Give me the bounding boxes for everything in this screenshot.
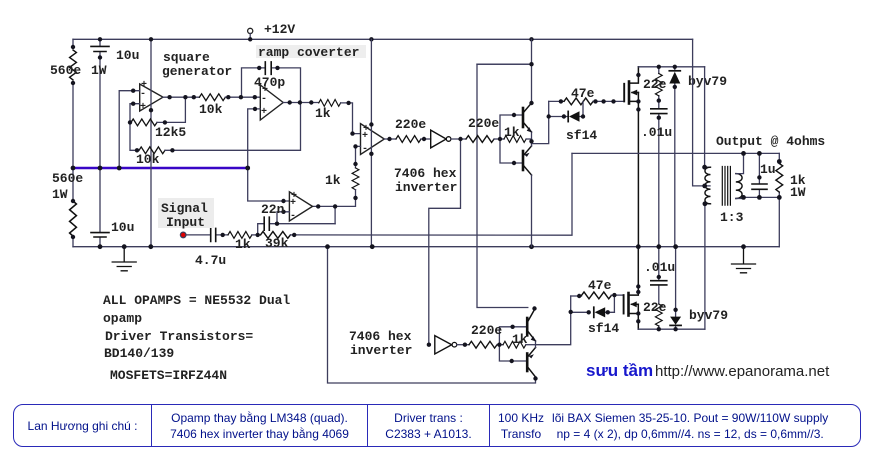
transistor Q1 collector — [523, 103, 532, 113]
transistor Q2 collector — [523, 165, 532, 175]
resistor 1k vertical (audio to comparator) — [352, 168, 359, 190]
wire output right side down to ground rail — [778, 197, 780, 246]
junction dots 22n / U4 inputs — [275, 222, 279, 226]
svg-text:+: + — [262, 85, 268, 96]
diode sf14 lower — [571, 311, 615, 313]
wire 39k to feedback line — [290, 234, 294, 236]
wire comparator output — [384, 138, 396, 140]
wire ramp feedback — [131, 103, 301, 151]
junction dots upper chain — [387, 137, 391, 141]
MOSFET M1 upper: gate bar — [623, 84, 625, 102]
MOSFET M2 lower: gate bar — [623, 295, 625, 313]
svg-text:560e: 560e — [50, 63, 81, 78]
MOSFET M2 substrate arrow — [632, 303, 639, 305]
transistor Q1 NPN upper: base bar — [522, 108, 525, 127]
svg-text:Input: Input — [166, 215, 205, 230]
label Signal Input — [158, 198, 214, 228]
wire U3 V+ V- riser — [370, 39, 372, 246]
junction dots 47e/sf14 lower — [577, 294, 581, 298]
wire drain rail upper — [638, 66, 704, 68]
svg-text:Signal: Signal — [161, 201, 208, 216]
wire U1 V+ / V- riser — [150, 39, 152, 246]
wire 1k to 39k — [252, 234, 261, 236]
resistor 1k upper driver — [504, 136, 526, 143]
svg-text:BD140/139: BD140/139 — [104, 346, 174, 361]
wire U2 output — [283, 102, 319, 104]
diode byv79 lower — [675, 247, 677, 330]
MOSFET M1 substrate arrow — [632, 92, 638, 94]
junction dots 10k divider — [135, 148, 139, 152]
transistor Q4 PNP lower: base bar — [526, 354, 529, 372]
MOSFET M1 channel bar — [628, 82, 631, 104]
wire 22n riser to U4 inverting input — [277, 212, 289, 224]
junction dots lower chain — [427, 343, 431, 347]
MOSFET M2 channel bar — [627, 293, 630, 316]
transformer T1 primary winding — [705, 167, 711, 204]
resistor 1k lower driver — [503, 341, 526, 348]
svg-text:220e: 220e — [471, 323, 502, 338]
junction dots signal path — [221, 233, 225, 237]
junction dots U3 riser — [369, 122, 373, 126]
svg-text:sf14: sf14 — [566, 128, 597, 143]
svg-text:560e: 560e — [52, 171, 83, 186]
junction dot 1u top — [757, 175, 761, 179]
wire to base junction — [494, 138, 504, 140]
arrowhead Q3 emitter — [531, 336, 536, 341]
svg-text:ALL OPAMPS = NE5532 Dual: ALL OPAMPS = NE5532 Dual — [103, 293, 290, 308]
wire terminal stem — [249, 34, 251, 40]
svg-text:.01u: .01u — [641, 125, 672, 140]
svg-text:+: + — [141, 80, 147, 91]
svg-text:MOSFETS=IRFZ44N: MOSFETS=IRFZ44N — [110, 368, 227, 383]
svg-text:sf14: sf14 — [588, 321, 619, 336]
wire output bottom rail — [744, 196, 780, 198]
resistor 1k signal — [228, 232, 252, 239]
svg-text:22e: 22e — [643, 300, 667, 315]
junction dot ground stem right — [741, 244, 746, 249]
wire output line (secondary top rail) — [572, 152, 779, 154]
wire lower output to 47e/sf14 — [536, 296, 571, 345]
junction dot U2 + input — [253, 107, 257, 111]
svg-text:1k: 1k — [325, 173, 341, 188]
svg-text:39k: 39k — [265, 236, 289, 251]
diode sf14 upper — [549, 101, 583, 116]
svg-text:1W: 1W — [790, 185, 806, 200]
credit line: epanorama url — [655, 363, 829, 380]
resistor 220e (second, upper chain) — [466, 136, 494, 143]
svg-text:47e: 47e — [588, 278, 612, 293]
wire inverter1 output — [451, 138, 466, 140]
transistor Q3 emitter — [527, 331, 535, 342]
junction dots blue rail — [71, 166, 76, 171]
wire +12V down to center tap — [693, 39, 710, 186]
op-amp U1 square generator — [140, 84, 163, 111]
junction dot U3 + input — [350, 131, 354, 135]
wire emitters node upper — [531, 132, 533, 146]
junction dots 12k5 — [128, 120, 132, 124]
svg-text:22n: 22n — [261, 202, 285, 217]
wire L1 +12V branch to lower NPN — [477, 64, 532, 307]
svg-text:opamp: opamp — [103, 311, 142, 326]
MOSFET M2 source stub — [629, 304, 639, 329]
svg-text:1k: 1k — [504, 125, 520, 140]
wire U1 non-inverting input — [130, 104, 140, 151]
wire bottom rail (primary bottom net) — [638, 328, 705, 330]
junction dots drain rail upper — [657, 65, 661, 69]
wire emitters node lower — [535, 341, 537, 379]
svg-text:220e: 220e — [468, 116, 499, 131]
svg-text:10k: 10k — [136, 152, 160, 167]
wire 12k5 to output L — [157, 97, 185, 122]
note table — [13, 404, 861, 447]
transistor Q4 emitter — [527, 348, 535, 358]
MOSFET M1 drain stub — [629, 67, 638, 83]
wire 47e left lead — [549, 100, 564, 102]
junction dots U2 output row — [288, 100, 292, 104]
transistor Q3 collector — [527, 310, 534, 323]
svg-text:byv79: byv79 — [689, 308, 728, 323]
svg-text:inverter: inverter — [350, 343, 412, 358]
junction dots snubber/diode lower — [657, 275, 661, 279]
wire U1 output — [163, 96, 199, 98]
wire upper output to 47e/sf14 — [532, 101, 549, 143]
inverter 7406 lower — [435, 336, 452, 354]
resistor 560e top-left — [70, 50, 77, 80]
wire U1 inverting input — [119, 91, 140, 168]
svg-text:47e: 47e — [571, 86, 595, 101]
svg-text:1:3: 1:3 — [720, 210, 744, 225]
snubber lower: .01u + 22e — [658, 247, 660, 330]
transistor Q2 emitter — [523, 146, 532, 156]
wire 220e to inverter1 — [421, 138, 431, 140]
wire primary bottom riser — [704, 204, 706, 329]
resistor 560e lower-left — [70, 201, 77, 236]
wire secondary bottom tap — [736, 197, 744, 198]
blue mid-supply rail — [73, 167, 248, 170]
ground symbol right — [732, 247, 756, 273]
junction dot byv79 upper anode — [673, 85, 677, 89]
svg-text:generator: generator — [162, 64, 232, 79]
svg-text:12k5: 12k5 — [155, 125, 186, 140]
wire secondary top tap — [736, 153, 744, 173]
transformer T1 core — [722, 167, 730, 206]
junction dots ground rail mid — [325, 244, 330, 249]
capacitor 10u top-left — [99, 39, 101, 168]
junction dot ground rail left caps — [98, 244, 103, 249]
svg-text:4.7u: 4.7u — [195, 253, 226, 268]
capacitor 1u — [758, 153, 760, 197]
transistor Q2 PNP upper: base bar — [522, 151, 525, 170]
wire 47e to gate junction — [611, 295, 623, 312]
label ramp coverter — [256, 45, 366, 58]
MOSFET M1 source stub — [629, 93, 638, 247]
ground rail (main bottom) — [73, 246, 779, 248]
svg-text:1k: 1k — [315, 106, 331, 121]
wire inverter2 output — [457, 344, 469, 346]
wire 1k to emitter node lower — [526, 344, 536, 346]
+12V top rail — [73, 38, 693, 40]
wire 47e to gate — [593, 100, 624, 102]
wire 1k to emitter node — [526, 138, 531, 140]
svg-text:470p: 470p — [254, 75, 285, 90]
junction dots 470p — [257, 66, 261, 70]
junction dots M2 — [636, 284, 640, 288]
wire signal input — [186, 234, 228, 236]
resistor 220e lower — [469, 341, 497, 348]
svg-text:byv79: byv79 — [688, 74, 727, 89]
svg-text:7406 hex: 7406 hex — [349, 329, 412, 344]
arrowhead Q2 emitter — [524, 153, 529, 157]
junction dots primary taps — [702, 165, 707, 170]
MOSFET M2 drain stub — [629, 247, 639, 295]
resistor 12k5 — [131, 119, 157, 126]
op-amp U3 comparator — [361, 124, 385, 155]
wire base risers lower pair — [499, 327, 527, 361]
wire to lower base junction — [497, 344, 503, 346]
wire U4 + fed from blue rail (drawn in A) junction — [283, 200, 285, 202]
svg-text:1W: 1W — [52, 187, 68, 202]
junction dots bottom rail — [657, 327, 661, 331]
arrowhead Q1 emitter — [527, 127, 532, 132]
wire primary bottom tap — [705, 203, 710, 205]
inverter 7406 upper — [431, 130, 447, 148]
wire U2 non-inverting input from blue rail — [248, 109, 290, 201]
resistor 47e upper — [564, 98, 593, 105]
wire 1k to comparator + — [341, 103, 361, 134]
junction dots top rail — [98, 37, 102, 41]
svg-text:ramp coverter: ramp coverter — [258, 45, 359, 60]
transistor Q4 collector — [527, 367, 535, 378]
wire lower driver ground return — [328, 247, 536, 383]
ground symbol left — [112, 247, 136, 271]
junction dot U1 V- — [149, 108, 153, 112]
svg-text:7406 hex: 7406 hex — [394, 166, 457, 181]
resistor 10k (divider/ramp feedback) — [139, 147, 165, 154]
svg-text:10u: 10u — [111, 220, 134, 235]
junction dots 560e top — [71, 45, 75, 49]
capacitor 22n branch — [258, 224, 335, 235]
junction dots output bottom rail — [741, 195, 746, 200]
wire +12V riser to Q1 collector — [477, 39, 532, 103]
wire 10k to U2 input — [225, 96, 260, 98]
resistor 10k (osc out) — [199, 94, 225, 101]
capacitor 4.7u — [211, 228, 216, 241]
svg-text:+: + — [291, 191, 297, 202]
resistor 1k output — [778, 153, 780, 197]
junction dot 1k top — [777, 159, 782, 164]
transformer T1 secondary winding — [736, 174, 742, 199]
resistor 1k (U2 out) — [319, 100, 341, 107]
svg-text:-: - — [290, 211, 296, 222]
wire 1k bottom to U4 output — [313, 190, 356, 207]
resistor 220e (first, upper chain) — [396, 136, 421, 143]
resistor 39k — [261, 232, 291, 239]
junction dots U1 output row — [167, 95, 171, 99]
junction dots output top rail — [741, 151, 746, 156]
junction dots ground rail right — [636, 244, 641, 249]
junction dots +12V riser — [529, 62, 533, 66]
wire Q2 collector to ground rail — [531, 175, 533, 247]
wire U4 feedback from output — [334, 206, 336, 223]
junction dots 560e lower — [71, 199, 75, 203]
node signal input (red) — [180, 232, 186, 238]
svg-text:1W: 1W — [91, 63, 107, 78]
+12V terminal — [248, 28, 253, 33]
junction dots M1 — [636, 73, 640, 77]
transistor Q1 emitter — [523, 122, 532, 132]
svg-text:220e: 220e — [395, 117, 426, 132]
capacitor 10u lower-left — [99, 168, 101, 247]
wire output feedback line (to secondary top) — [294, 153, 572, 235]
wire left vertical — [72, 39, 74, 246]
svg-text:inverter: inverter — [395, 180, 457, 195]
svg-text:-: - — [362, 144, 368, 155]
junction dots snubber upper — [657, 98, 661, 102]
svg-text:22e: 22e — [643, 77, 667, 92]
svg-text:10k: 10k — [199, 102, 223, 117]
transistor Q3 NPN lower: base bar — [526, 318, 529, 335]
diode byv79 upper — [674, 67, 676, 247]
resistor 47e lower — [582, 292, 612, 299]
capacitor 470p loop — [242, 68, 301, 103]
junction dots U4 output row — [316, 204, 320, 208]
svg-text:10u: 10u — [116, 48, 139, 63]
junction dots 47e/sf14 upper — [559, 99, 563, 103]
arrowhead Q4 emitter — [529, 354, 534, 358]
junction dots 1k vertical — [353, 144, 357, 148]
svg-text:Driver Transistors=: Driver Transistors= — [105, 329, 253, 344]
junction dots lower collectors — [532, 306, 536, 310]
junction dots U1 inputs — [131, 89, 135, 93]
svg-text:+: + — [140, 102, 146, 113]
svg-text:.01u: .01u — [644, 260, 675, 275]
wire 47e lower left lead — [571, 295, 582, 297]
svg-text:1k: 1k — [512, 332, 528, 347]
svg-text:square: square — [163, 50, 210, 65]
wire base risers upper pair — [500, 115, 523, 163]
op-amp U2 ramp converter — [260, 85, 283, 120]
svg-text:1u: 1u — [760, 162, 776, 177]
svg-text:Output @ 4ohms: Output @ 4ohms — [716, 134, 825, 149]
svg-text:+: + — [363, 124, 369, 135]
svg-text:1k: 1k — [235, 237, 251, 252]
credit line: suu tam — [586, 361, 653, 381]
svg-text:+12V: +12V — [264, 22, 295, 37]
snubber upper: 22e + .01u — [658, 67, 660, 247]
wire inverter1 to inverter2 jog — [429, 139, 461, 345]
wire primary top tap — [705, 67, 710, 167]
op-amp U4 input buffer — [289, 192, 312, 221]
svg-text:+: + — [261, 107, 267, 118]
wire U3 inverting input — [356, 146, 361, 168]
